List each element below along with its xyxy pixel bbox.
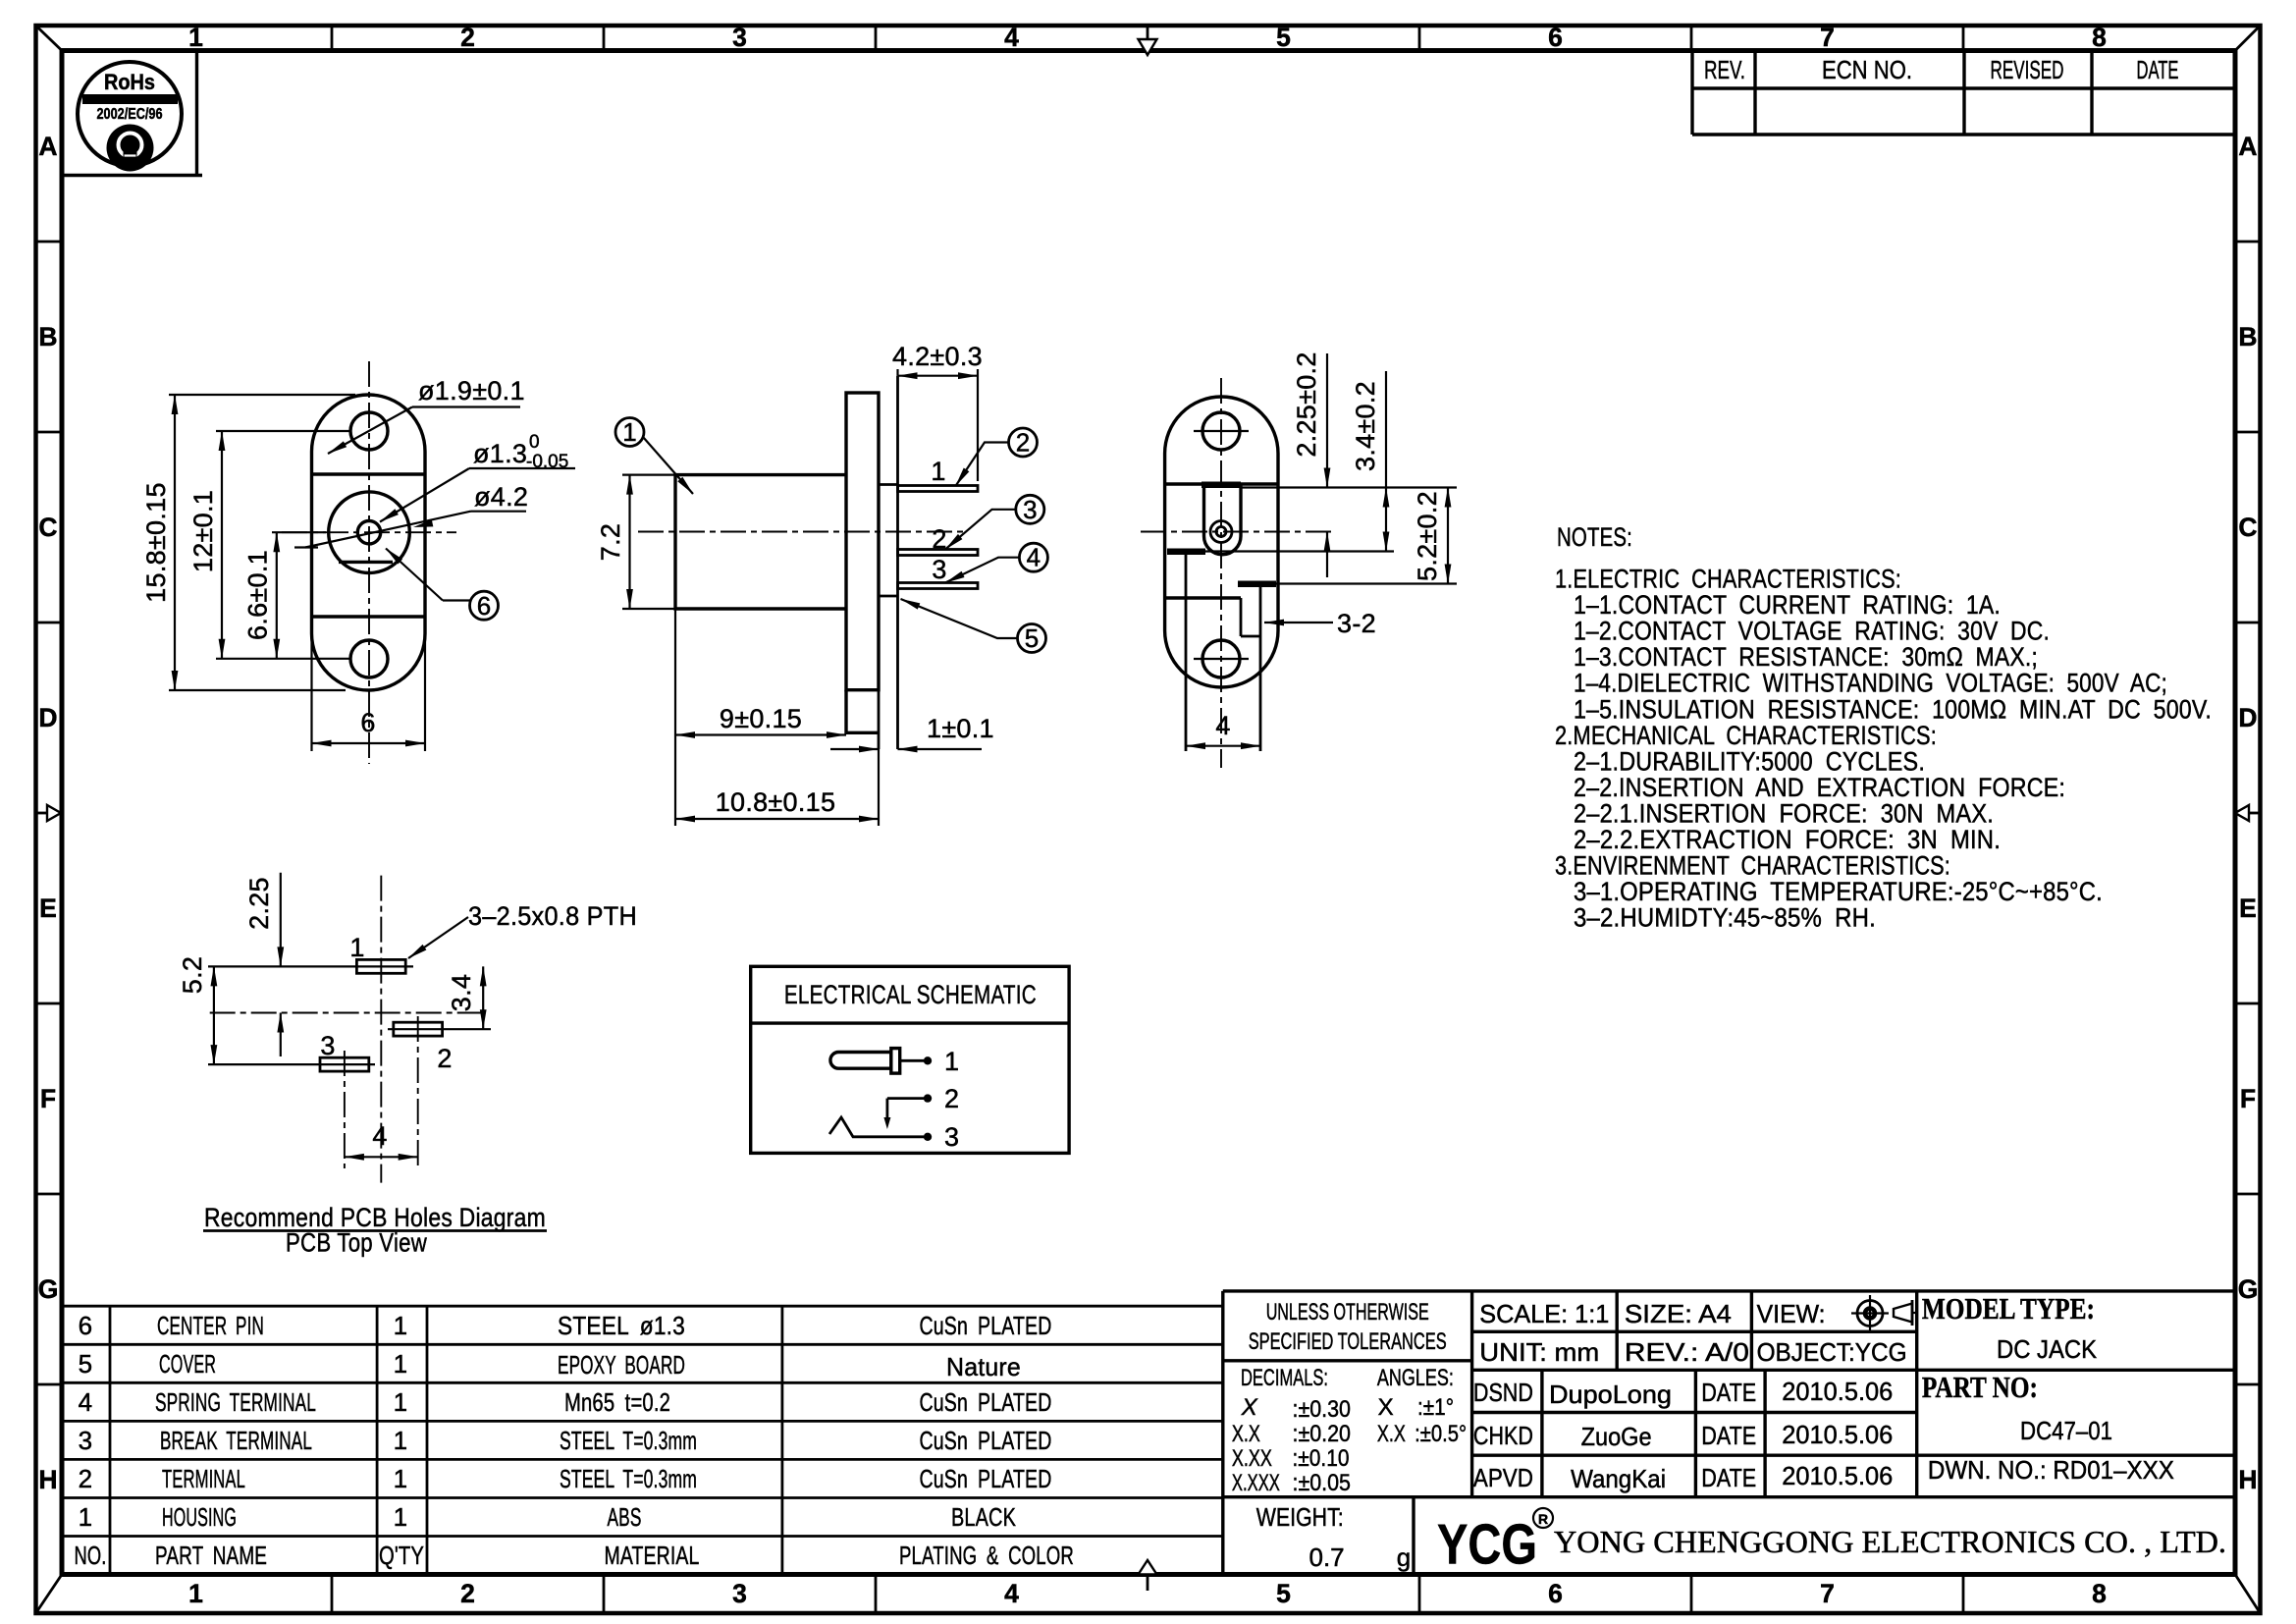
svg-text::±0.20: :±0.20 (1293, 1421, 1352, 1447)
svg-text:REV.: REV. (1704, 55, 1745, 84)
flange obround outline (312, 395, 426, 690)
svg-text:1–5.INSULATION RESISTANCE: 100: 1–5.INSULATION RESISTANCE: 100MΩ MIN.AT … (1574, 694, 2212, 724)
svg-text:G: G (38, 1274, 59, 1304)
svg-text:1: 1 (394, 1387, 408, 1417)
svg-text:SPRING TERMINAL: SPRING TERMINAL (155, 1387, 316, 1417)
svg-text:CENTER PIN: CENTER PIN (157, 1311, 264, 1340)
svg-text:SCALE: 1:1: SCALE: 1:1 (1479, 1299, 1609, 1328)
view symbol: target circle (1851, 1295, 1889, 1331)
svg-text:6.6±0.1: 6.6±0.1 (243, 550, 273, 640)
pin 2 vertical edge (1185, 555, 1188, 752)
svg-text:6: 6 (477, 591, 491, 621)
top mounting hole (1202, 412, 1240, 450)
dimension 6.6±0.1 (272, 532, 326, 659)
center mark top (1139, 26, 1157, 55)
svg-text:1: 1 (394, 1464, 408, 1493)
svg-text:0: 0 (529, 432, 540, 453)
svg-text:4: 4 (1004, 23, 1019, 52)
svg-text:2010.5.06: 2010.5.06 (1782, 1377, 1893, 1406)
rear view horizontal centerline (1141, 531, 1335, 533)
bottom mounting hole (1202, 640, 1240, 677)
svg-text:2002/EC/96: 2002/EC/96 (97, 106, 163, 123)
balloon 2 (1009, 428, 1038, 457)
svg-text:4: 4 (1215, 711, 1230, 740)
svg-text:7: 7 (1820, 1579, 1835, 1608)
hole3 horizontal line (208, 1063, 375, 1065)
zone tick marks top band (332, 26, 1963, 51)
svg-text:X.X: X.X (1377, 1421, 1406, 1447)
svg-text:F: F (40, 1084, 56, 1113)
balloon 4 leader (945, 558, 1019, 583)
svg-text:BREAK TERMINAL: BREAK TERMINAL (160, 1426, 312, 1455)
horizontal centerline (282, 531, 456, 533)
svg-text:2–2.2.EXTRACTION FORCE: 3N MIN: 2–2.2.EXTRACTION FORCE: 3N MIN. (1574, 825, 2001, 854)
svg-text:DATE: DATE (1701, 1378, 1756, 1407)
svg-text::±0.05: :±0.05 (1293, 1470, 1352, 1496)
balloon 6 (470, 591, 499, 620)
svg-text:2: 2 (932, 524, 946, 554)
top mounting hole (350, 412, 388, 450)
svg-text:CuSn PLATED: CuSn PLATED (920, 1311, 1052, 1340)
svg-text:2: 2 (437, 1044, 452, 1073)
svg-text:g: g (1397, 1543, 1411, 1572)
zone letters left (38, 132, 59, 1494)
chord line lower (312, 615, 426, 618)
hole cross lines (1194, 430, 1249, 432)
vertical centerline (368, 361, 370, 764)
center mark right (2235, 805, 2261, 821)
dimension 7.2 (622, 475, 675, 609)
svg-text:1: 1 (394, 1502, 408, 1532)
dimension 5.2 (pcb) (213, 966, 215, 1064)
svg-text:1: 1 (79, 1502, 93, 1532)
svg-text:7: 7 (1820, 23, 1835, 52)
svg-text:D: D (2238, 703, 2257, 732)
lower tab below flange (846, 690, 879, 733)
svg-text:YCG: YCG (1437, 1513, 1537, 1576)
svg-text:6: 6 (1548, 23, 1563, 52)
dimension 2.25 (pcb) (280, 873, 282, 1056)
svg-text:CuSn PLATED: CuSn PLATED (920, 1464, 1052, 1493)
cover (epoxy board) back edge (896, 376, 899, 749)
dimension 6 (312, 636, 426, 751)
svg-text:2010.5.06: 2010.5.06 (1782, 1461, 1893, 1490)
svg-text:PART NO:: PART NO: (1922, 1370, 2038, 1404)
svg-text:1–1.CONTACT CURRENT RATING: 1A: 1–1.CONTACT CURRENT RATING: 1A. (1574, 590, 2001, 620)
dimension 2.25±0.2 (1326, 353, 1328, 577)
dimension 10.8±0.15 (675, 742, 879, 826)
hole1 horizontal line (208, 965, 413, 967)
svg-text:3: 3 (732, 1579, 747, 1608)
svg-text:SIZE: A4: SIZE: A4 (1625, 1299, 1732, 1328)
svg-text:DC JACK: DC JACK (1997, 1334, 2098, 1364)
dimension 5.2±0.2 (1447, 488, 1449, 584)
balloon 3 (1016, 495, 1044, 523)
svg-text:REVISED: REVISED (1991, 55, 2064, 84)
svg-text:1–3.CONTACT RESISTANCE: 30mΩ M: 1–3.CONTACT RESISTANCE: 30mΩ MAX.; (1574, 642, 2038, 672)
YCG logo (1437, 1508, 1553, 1576)
plug barrel symbol (830, 1053, 891, 1069)
zone tick marks right band (2235, 242, 2261, 1384)
svg-text:2: 2 (944, 1084, 959, 1113)
svg-text:ø1.3: ø1.3 (473, 439, 527, 468)
svg-text:PART NAME: PART NAME (155, 1541, 267, 1570)
balloon 2 leader (956, 443, 1009, 487)
svg-text:E: E (39, 893, 57, 923)
switch drop contact (886, 1099, 889, 1123)
svg-text:2: 2 (79, 1464, 93, 1493)
svg-text:BLACK: BLACK (951, 1502, 1016, 1532)
RoHs logo box (62, 51, 202, 176)
svg-text:DWN. NO.: RD01–XXX: DWN. NO.: RD01–XXX (1928, 1455, 2174, 1485)
dimension 4.2±0.3 (898, 369, 979, 481)
svg-text::±0.5°: :±0.5° (1415, 1421, 1467, 1447)
svg-text:X.XX: X.XX (1232, 1445, 1272, 1472)
svg-text:YONG CHENGGONG ELECTRONICS CO.: YONG CHENGGONG ELECTRONICS CO. , LTD. (1554, 1525, 2226, 1559)
svg-text:6: 6 (360, 708, 375, 737)
svg-text:H: H (2238, 1465, 2257, 1494)
node 2 dot (924, 1094, 932, 1102)
corner diagonal top-right (2235, 26, 2261, 51)
terminal pin 1 (898, 486, 979, 492)
hole2 vertical centerline (417, 1016, 419, 1168)
svg-text:3–2.HUMIDTY:45~85% RH.: 3–2.HUMIDTY:45~85% RH. (1574, 903, 1876, 933)
pin3 extension line (1276, 582, 1457, 584)
svg-text:4: 4 (1027, 543, 1041, 572)
svg-text:1: 1 (931, 457, 945, 486)
svg-text:2–2.INSERTION AND EXTRACTION F: 2–2.INSERTION AND EXTRACTION FORCE: (1574, 773, 2065, 802)
svg-text:R: R (1538, 1511, 1548, 1527)
side view centerline (638, 531, 967, 533)
svg-text:DATE: DATE (1701, 1421, 1756, 1450)
REV table top right (1692, 51, 2235, 135)
balloon 4 (1019, 543, 1047, 571)
svg-text:TERMINAL: TERMINAL (162, 1464, 245, 1493)
svg-text::±0.10: :±0.10 (1293, 1445, 1350, 1472)
svg-text:2–1.DURABILITY:5000 CYCLES.: 2–1.DURABILITY:5000 CYCLES. (1574, 746, 1925, 776)
svg-text:2: 2 (1016, 428, 1030, 458)
svg-text:2.25±0.2: 2.25±0.2 (1292, 352, 1321, 457)
svg-text:DECIMALS:: DECIMALS: (1241, 1365, 1328, 1391)
svg-text:G: G (2238, 1274, 2259, 1304)
view symbol: cone frustum (1894, 1300, 1916, 1326)
svg-text:1: 1 (188, 1579, 203, 1608)
svg-text:WEIGHT:: WEIGHT: (1256, 1502, 1344, 1532)
balloon 6 leader (386, 549, 470, 601)
svg-text:RoHs: RoHs (104, 70, 155, 94)
svg-text:X.XXX: X.XXX (1232, 1470, 1280, 1496)
boss chord (339, 561, 393, 564)
svg-text:NO.: NO. (75, 1541, 107, 1570)
svg-text:3.4: 3.4 (447, 974, 476, 1011)
corner diagonal bottom-left (36, 1575, 63, 1614)
center mark left (36, 805, 62, 821)
svg-text:OBJECT:YCG: OBJECT:YCG (1757, 1337, 1907, 1367)
zone tick marks bottom band (332, 1575, 1963, 1614)
svg-text:2: 2 (460, 23, 475, 52)
svg-text:1–4.DIELECTRIC WITHSTANDING VO: 1–4.DIELECTRIC WITHSTANDING VOLTAGE: 500… (1574, 669, 2167, 698)
svg-text:3: 3 (1023, 495, 1037, 524)
svg-text:3-2: 3-2 (1337, 609, 1376, 638)
zone tick marks left band (36, 242, 63, 1384)
svg-text:0.7: 0.7 (1309, 1543, 1345, 1572)
cover top edge (879, 483, 898, 486)
pin2 extension line (1205, 550, 1394, 552)
housing snout outline (675, 475, 846, 609)
balloon 5 (1018, 624, 1046, 653)
wire to node 2 (887, 1097, 924, 1100)
svg-text:SPECIFIED TOLERANCES: SPECIFIED TOLERANCES (1249, 1328, 1447, 1355)
svg-text:2: 2 (460, 1579, 475, 1608)
svg-text:3: 3 (732, 23, 747, 52)
svg-text:A: A (38, 132, 57, 161)
svg-text:EPOXY BOARD: EPOXY BOARD (558, 1350, 685, 1380)
zone numbers bottom (188, 1579, 2107, 1608)
svg-text:STEEL ø1.3: STEEL ø1.3 (558, 1311, 685, 1340)
svg-text:1: 1 (622, 417, 636, 447)
svg-text:REV.: A/0: REV.: A/0 (1625, 1337, 1749, 1367)
balloon 5 leader (901, 599, 1018, 638)
center mark bottom (1139, 1560, 1157, 1591)
svg-text:8: 8 (2092, 23, 2107, 52)
svg-text:APVD: APVD (1473, 1463, 1533, 1492)
hole3 vertical centerline (344, 1051, 346, 1168)
dimension 15.8±0.15 (169, 395, 355, 690)
svg-text:2–2.1.INSERTION FORCE: 30N MAX: 2–2.1.INSERTION FORCE: 30N MAX. (1574, 799, 1994, 829)
svg-text:COVER: COVER (159, 1349, 216, 1379)
dimension 12±0.1 (216, 431, 351, 659)
svg-text:1: 1 (394, 1349, 408, 1379)
svg-text:X.X: X.X (1232, 1421, 1260, 1447)
main vertical centerline (380, 876, 382, 1183)
center boss circle ø4.2 (329, 492, 410, 573)
svg-text:CuSn PLATED: CuSn PLATED (920, 1387, 1052, 1417)
svg-text:1: 1 (944, 1047, 959, 1076)
dimension 9±0.15 (675, 609, 846, 742)
svg-text:7.2: 7.2 (596, 523, 625, 561)
dimension 3.4±0.2 (1385, 371, 1387, 552)
svg-text:PCB Top View: PCB Top View (286, 1228, 427, 1258)
bottom mounting hole (350, 640, 388, 677)
svg-text:4: 4 (79, 1387, 93, 1417)
dimension 1±0.1 (830, 748, 982, 750)
svg-text:DupoLong: DupoLong (1549, 1380, 1672, 1409)
svg-text:5: 5 (1276, 1579, 1291, 1608)
svg-text:15.8±0.15: 15.8±0.15 (141, 482, 171, 603)
svg-text:PLATING & COLOR: PLATING & COLOR (899, 1541, 1074, 1570)
svg-text:12±0.1: 12±0.1 (188, 490, 218, 572)
pin 1 slot bar (1201, 482, 1241, 489)
svg-text:8: 8 (2092, 1579, 2107, 1608)
svg-text:4.2±0.3: 4.2±0.3 (892, 342, 983, 371)
svg-text:6: 6 (1548, 1579, 1563, 1608)
balloon 1 (615, 418, 644, 447)
svg-text:1: 1 (394, 1311, 408, 1340)
center pin end (outer) (1210, 521, 1232, 543)
svg-text:2.25: 2.25 (244, 877, 274, 930)
svg-text:3: 3 (320, 1031, 335, 1060)
svg-text:ANGLES:: ANGLES: (1377, 1365, 1454, 1391)
zone letters right (2238, 132, 2259, 1494)
pin1 extension line (1241, 486, 1457, 488)
svg-text:Nature: Nature (946, 1352, 1021, 1381)
spring contact and wire to node 3 (829, 1117, 924, 1137)
svg-text:NOTES:: NOTES: (1557, 522, 1632, 552)
svg-text:C: C (2238, 513, 2257, 542)
svg-text:5: 5 (1025, 623, 1039, 653)
svg-text:1–2.CONTACT VOLTAGE RATING: 30: 1–2.CONTACT VOLTAGE RATING: 30V DC. (1574, 617, 2050, 646)
svg-text:DSND: DSND (1473, 1378, 1533, 1407)
svg-text:D: D (38, 703, 57, 732)
chord line upper (312, 472, 426, 475)
corner diagonal top-left (36, 26, 63, 51)
svg-text:3–1.OPERATING TEMPERATURE:-25°: 3–1.OPERATING TEMPERATURE:-25°C~+85°C. (1574, 877, 2103, 906)
rear flange obround (1165, 397, 1278, 687)
svg-text::±1°: :±1° (1417, 1394, 1454, 1421)
svg-text:Q'TY: Q'TY (379, 1541, 424, 1570)
svg-text:C: C (38, 513, 57, 542)
corner diagonal bottom-right (2235, 1575, 2261, 1614)
svg-text:3.4±0.2: 3.4±0.2 (1351, 381, 1380, 471)
svg-text:2010.5.06: 2010.5.06 (1782, 1420, 1893, 1449)
svg-text:1: 1 (188, 23, 203, 52)
svg-text:X: X (1241, 1394, 1258, 1421)
svg-text:UNIT: mm: UNIT: mm (1479, 1337, 1599, 1367)
terminal pin 3 (898, 583, 979, 589)
slot hole 3 (320, 1057, 369, 1071)
svg-text:3–2.5x0.8 PTH: 3–2.5x0.8 PTH (468, 901, 637, 931)
pin 2 slot bar (1167, 549, 1205, 556)
svg-text:E: E (2239, 893, 2257, 923)
rear view vertical centerline (1220, 378, 1222, 768)
svg-text:CHKD: CHKD (1473, 1421, 1533, 1450)
slot hole 2 (394, 1022, 443, 1036)
balloon 1 leader (643, 437, 693, 494)
svg-text:HOUSING: HOUSING (162, 1502, 237, 1532)
svg-text:ECN NO.: ECN NO. (1822, 55, 1912, 84)
svg-text:3.ENVIRENMENT CHARACTERISTICS:: 3.ENVIRENMENT CHARACTERISTICS: (1555, 851, 1950, 881)
svg-text:MODEL TYPE:: MODEL TYPE: (1922, 1291, 2095, 1326)
main horizontal centerline (210, 1012, 485, 1014)
slot hole 1 (356, 959, 405, 973)
svg-text:ABS: ABS (608, 1502, 642, 1532)
hole2 horizontal line (388, 1028, 491, 1030)
pin 3 slot bar (1238, 581, 1276, 588)
cover bottom edge (879, 595, 898, 598)
wire to node 1 (900, 1059, 924, 1062)
svg-text:1±0.1: 1±0.1 (927, 714, 994, 743)
svg-text:B: B (38, 322, 57, 352)
svg-text:CuSn PLATED: CuSn PLATED (920, 1426, 1052, 1455)
flange plate side profile (846, 393, 879, 690)
svg-text:1.ELECTRIC CHARACTERISTICS:: 1.ELECTRIC CHARACTERISTICS: (1555, 565, 1901, 594)
svg-text:A: A (2238, 132, 2257, 161)
svg-text:H: H (38, 1465, 57, 1494)
plug tip contact (891, 1049, 900, 1074)
svg-text:9±0.15: 9±0.15 (720, 704, 802, 733)
svg-text:WangKai: WangKai (1571, 1464, 1666, 1493)
svg-text:MATERIAL: MATERIAL (605, 1541, 700, 1570)
svg-text:5.2: 5.2 (178, 956, 207, 994)
svg-text:ø4.2: ø4.2 (474, 482, 528, 512)
svg-text:ELECTRICAL SCHEMATIC: ELECTRICAL SCHEMATIC (784, 980, 1037, 1009)
svg-text:STEEL T=0.3mm: STEEL T=0.3mm (560, 1426, 697, 1455)
svg-text:STEEL T=0.3mm: STEEL T=0.3mm (560, 1464, 697, 1493)
center pin hole ø1.3 (357, 521, 380, 544)
svg-text:Mn65 t=0.2: Mn65 t=0.2 (564, 1387, 670, 1417)
svg-text:3: 3 (79, 1426, 93, 1455)
svg-text:F: F (2240, 1084, 2256, 1113)
center pin end (inner) (1216, 527, 1226, 537)
svg-text:4: 4 (1004, 1579, 1019, 1608)
svg-text:10.8±0.15: 10.8±0.15 (716, 787, 836, 817)
svg-text:DC47–01: DC47–01 (2020, 1416, 2112, 1445)
svg-text:6: 6 (79, 1311, 93, 1340)
svg-text:DATE: DATE (1701, 1463, 1756, 1492)
svg-text:3: 3 (944, 1122, 959, 1152)
svg-text:DATE: DATE (2137, 55, 2179, 84)
chord line upper (1165, 482, 1278, 485)
svg-text:1: 1 (394, 1426, 408, 1455)
spring terminal U shape (1204, 484, 1242, 555)
node 3 dot (924, 1133, 932, 1141)
svg-text:ZuoGe: ZuoGe (1581, 1422, 1652, 1451)
zone numbers top (188, 23, 2107, 52)
dimension 4 (rear) (1186, 745, 1260, 747)
svg-text:1: 1 (349, 933, 364, 962)
svg-text:VIEW:: VIEW: (1757, 1299, 1826, 1328)
svg-text:4: 4 (372, 1121, 387, 1151)
pin 3 vertical edges (1240, 598, 1243, 636)
dimension 3.4 (pcb) (482, 966, 484, 1029)
svg-text:ø1.9±0.1: ø1.9±0.1 (418, 376, 525, 406)
svg-text:B: B (2238, 322, 2257, 352)
pin 3 step (1241, 635, 1260, 638)
svg-text:X: X (1378, 1394, 1394, 1421)
chord line lower partial (1165, 596, 1241, 599)
svg-text::±0.30: :±0.30 (1293, 1396, 1352, 1423)
node 1 dot (924, 1056, 932, 1064)
svg-text:5.2±0.2: 5.2±0.2 (1413, 491, 1442, 581)
svg-text:2.MECHANICAL CHARACTERISTICS:: 2.MECHANICAL CHARACTERISTICS: (1555, 721, 1937, 750)
svg-text:3: 3 (932, 555, 946, 584)
balloon 3 leader (945, 510, 1016, 550)
svg-text:5: 5 (79, 1349, 93, 1379)
svg-text:UNLESS OTHERWISE: UNLESS OTHERWISE (1266, 1299, 1429, 1326)
flange right edge extension down (878, 690, 881, 749)
dimension 4 (pcb) (345, 1156, 418, 1158)
terminal pin 2 (898, 550, 979, 556)
svg-text:5: 5 (1276, 23, 1291, 52)
